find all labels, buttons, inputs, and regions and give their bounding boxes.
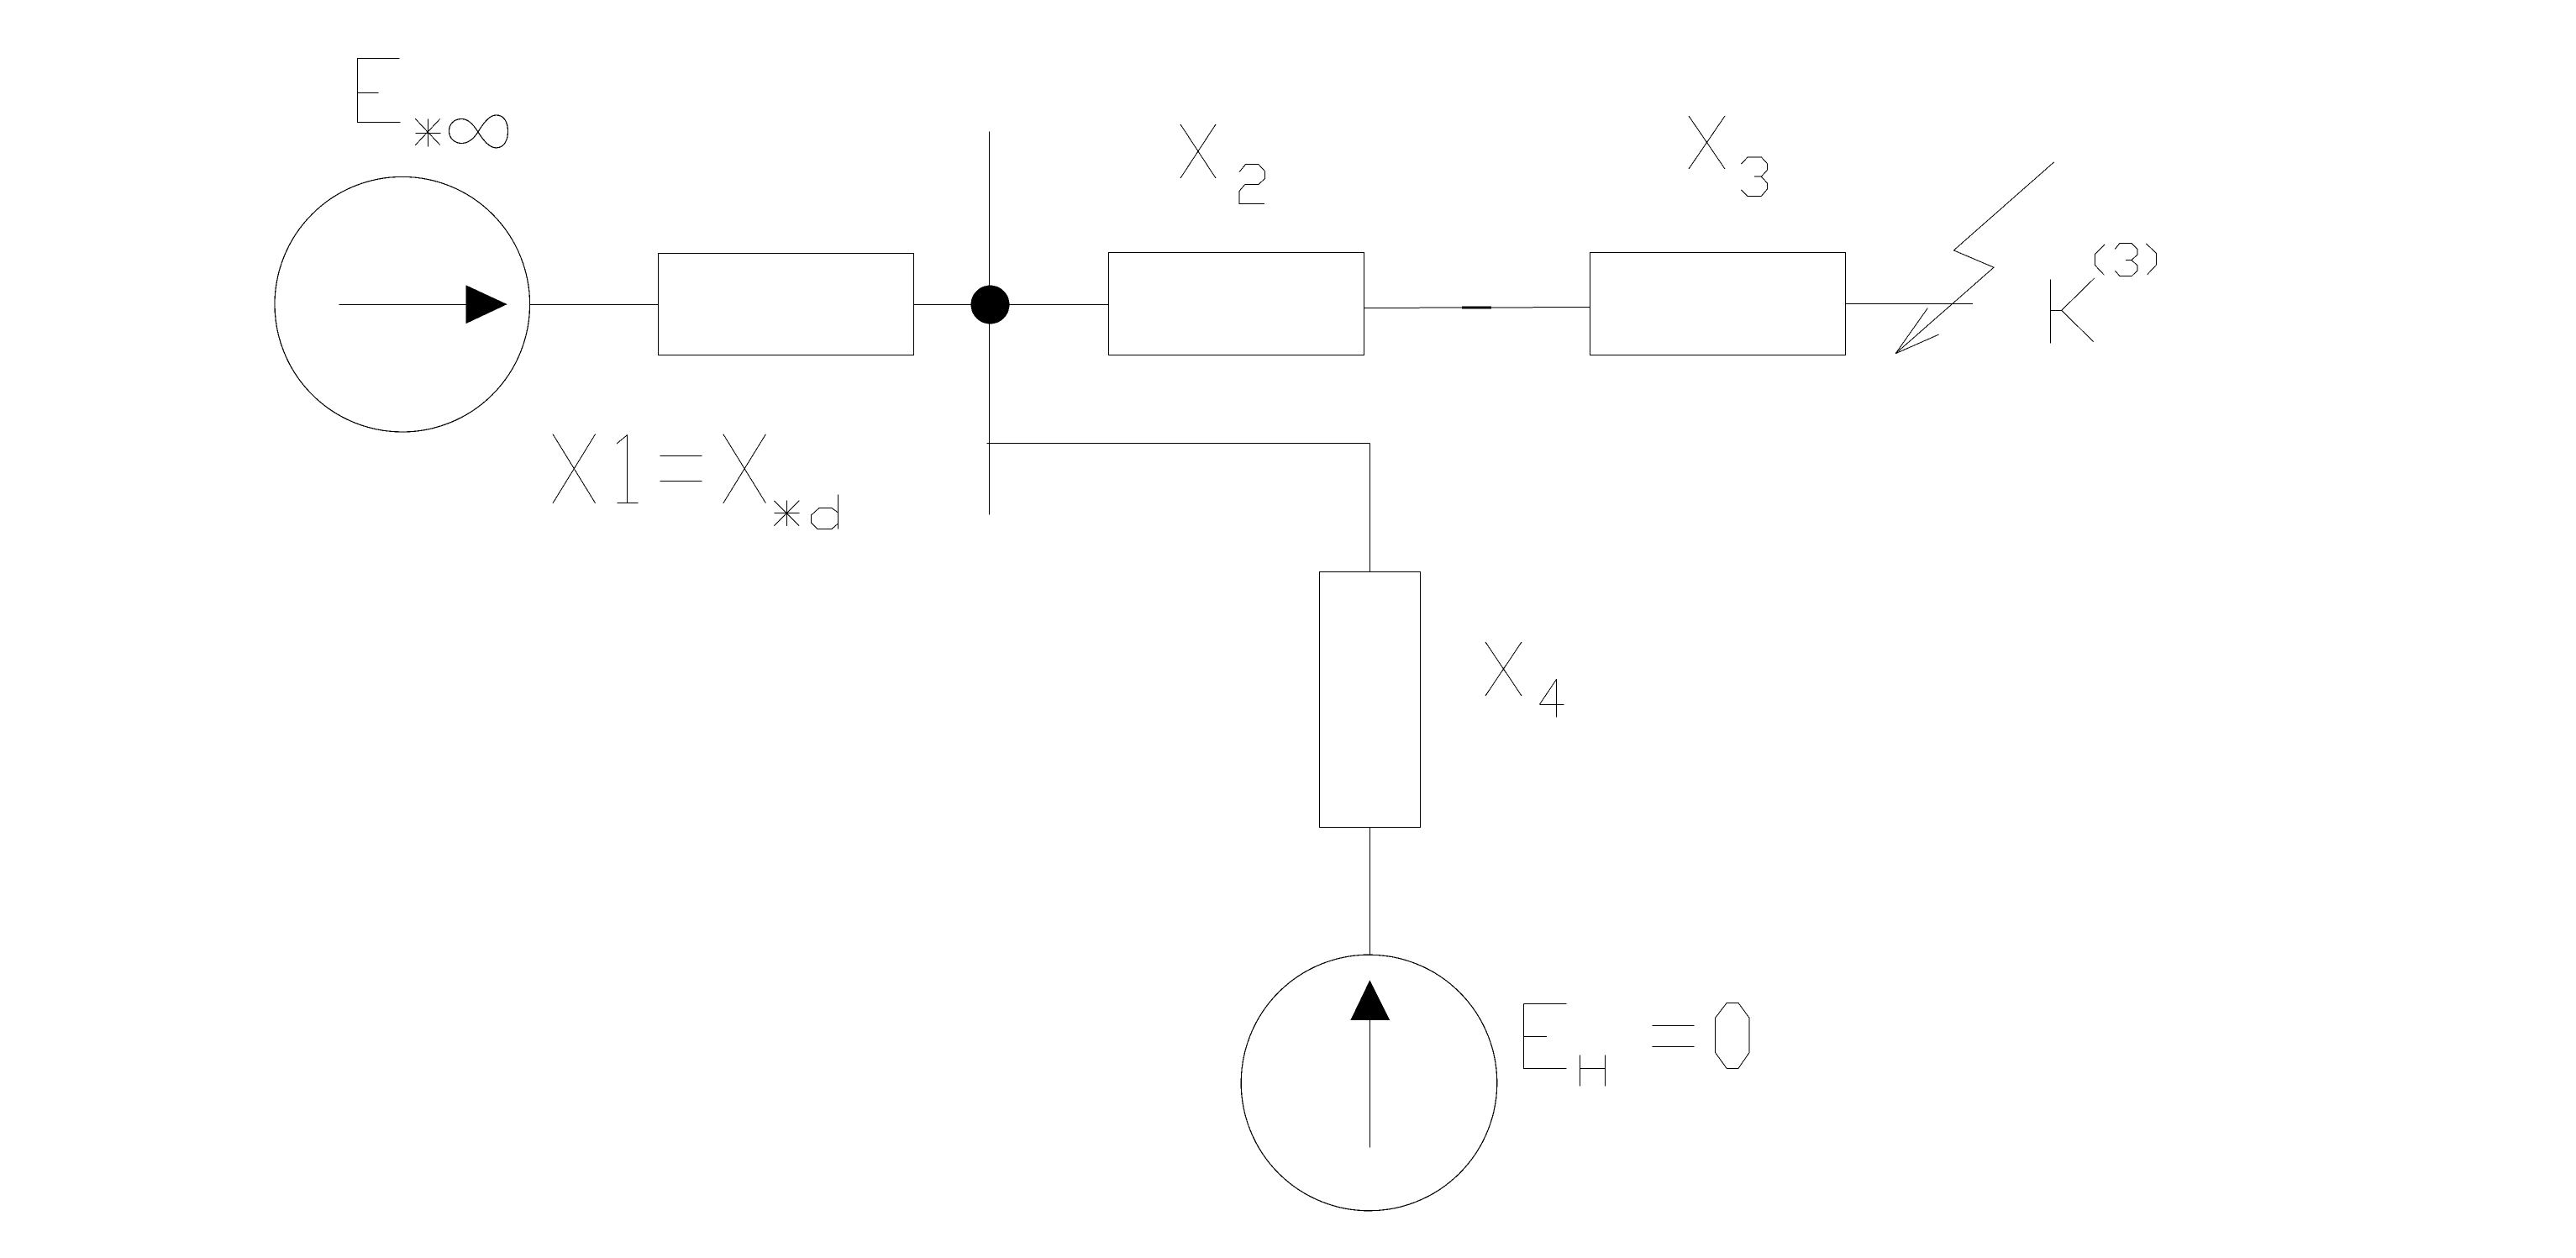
voltage source U1 E*inf (system source circle)	[275, 176, 530, 432]
label X3	[1689, 116, 1767, 197]
label X4	[1485, 642, 1564, 718]
arrow of source En	[1350, 980, 1390, 1147]
label E*inf	[358, 58, 508, 148]
label K(3)	[2051, 243, 2157, 343]
wire X3 to fault point	[1846, 303, 1974, 305]
junction dot	[971, 286, 1010, 324]
arrow of source E*inf	[339, 285, 507, 324]
wire source E*inf to resistor X1	[530, 304, 659, 306]
fault symbol K(3) lightning arrow	[1895, 162, 2054, 354]
resistor X1	[659, 254, 914, 355]
bus node A vertical line	[989, 132, 991, 515]
wire X1 to junction	[914, 304, 991, 306]
resistor X2	[1109, 253, 1364, 355]
wire X2 to X3	[1364, 308, 1590, 308]
label En=0	[1524, 1003, 1750, 1086]
wire branch vertical down to X4	[1369, 444, 1371, 572]
voltage source U2 En (load source circle)	[1241, 955, 1497, 1211]
wire bus branch horizontal	[987, 443, 1370, 445]
wire overlap dash between X2 and X3	[1462, 307, 1491, 309]
label X2	[1180, 124, 1265, 203]
wire junction to resistor X2	[990, 304, 1109, 306]
resistor X3	[1590, 253, 1846, 355]
resistor X4	[1320, 572, 1421, 828]
wire X4 to source En	[1369, 828, 1371, 956]
label X1=X*d	[553, 434, 839, 529]
